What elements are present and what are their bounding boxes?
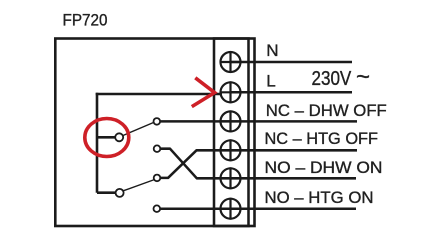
wire NC-HTG-OFF crossover from NC2 contact <box>161 150 357 178</box>
svg-text:~: ~ <box>356 63 370 90</box>
programmer box outline <box>55 39 254 227</box>
common contact 1 <box>115 133 123 141</box>
terminal 4 <box>220 139 241 161</box>
NO contact pole 2 <box>154 205 161 212</box>
switch arm pole 2 <box>124 180 154 191</box>
svg-text:NC – DHW OFF: NC – DHW OFF <box>266 101 387 120</box>
svg-text:NO – HTG ON: NO – HTG ON <box>265 188 374 207</box>
red annotation circle around common 1 <box>85 119 129 157</box>
svg-text:L: L <box>266 72 275 91</box>
terminal block <box>214 39 249 227</box>
NC contact pole 1 <box>154 118 161 125</box>
wire NO-DHW-ON crossover from NO1 contact <box>161 149 356 179</box>
stub to common 2 <box>97 191 115 194</box>
terminal 1 N <box>220 51 241 73</box>
svg-text:230V: 230V <box>312 68 352 90</box>
common contact 2 <box>116 189 124 197</box>
terminal 2 L <box>220 81 241 103</box>
wire N right <box>231 61 353 64</box>
svg-text:NC – HTG OFF: NC – HTG OFF <box>265 129 379 148</box>
wire L left from bus <box>96 93 222 96</box>
stub to common 1 <box>97 136 115 139</box>
svg-text:FP720: FP720 <box>63 11 108 29</box>
NC contact pole 2 <box>154 175 161 182</box>
terminal 3 <box>220 110 241 132</box>
switch arm pole 1 <box>123 123 153 136</box>
NO contact pole 1 <box>154 145 161 152</box>
wire L right <box>231 91 353 94</box>
svg-text:N: N <box>266 41 278 60</box>
svg-text:NO – DHW ON: NO – DHW ON <box>265 158 383 177</box>
terminal 6 <box>220 198 241 220</box>
red annotation arrow at L terminal <box>192 78 215 107</box>
bus wire vertical <box>96 93 99 193</box>
wire NC-DHW-OFF <box>160 120 357 123</box>
terminal 5 <box>220 167 241 189</box>
wire NO-HTG-ON <box>160 207 356 210</box>
